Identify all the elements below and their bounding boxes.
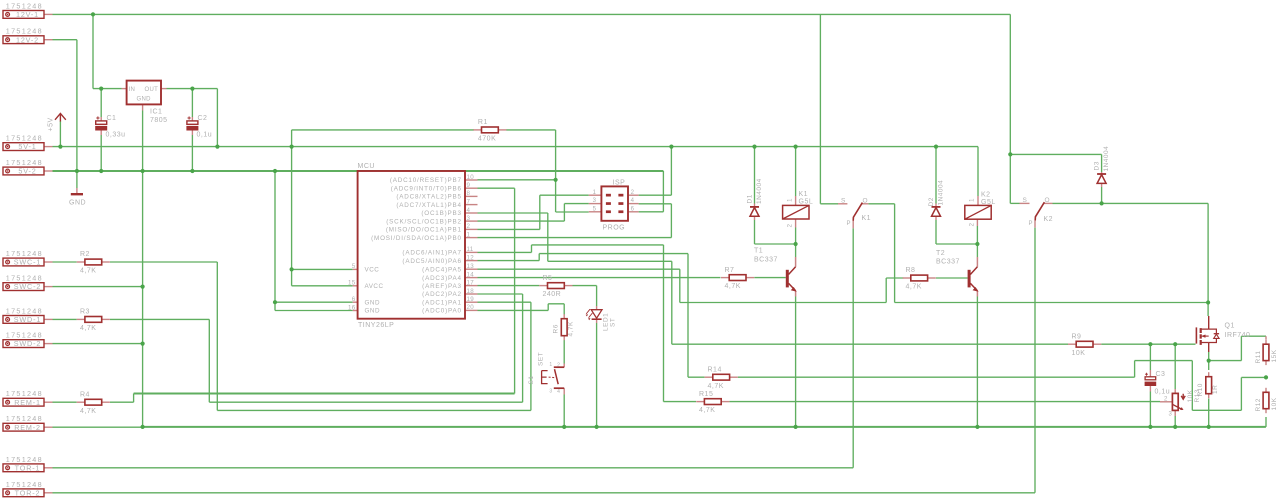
MCU pin 7 stub	[465, 204, 478, 206]
wire R6 to switch S1	[563, 340, 565, 364]
svg-text:9: 9	[467, 182, 471, 189]
svg-text:5V-2: 5V-2	[18, 167, 36, 176]
ISP pin 3 stub	[589, 203, 602, 205]
svg-text:(MOSI/DI/SDA/OC1A)PB0: (MOSI/DI/SDA/OC1A)PB0	[371, 235, 462, 242]
svg-text:SWD-2: SWD-2	[14, 339, 41, 348]
svg-text:4: 4	[557, 389, 560, 395]
wire GND pin6 branch	[275, 301, 353, 303]
wire MCU PA3 to R5	[478, 285, 540, 287]
resistor R3 4,7K	[85, 317, 102, 323]
svg-text:IC1: IC1	[150, 109, 162, 116]
relay coil K1 G5L	[783, 205, 809, 219]
junction ground riser on REM-2	[141, 425, 145, 429]
diode D1 1N4004	[750, 206, 759, 208]
svg-text:R9: R9	[1072, 333, 1082, 340]
wire R5 to LED1 anode	[573, 285, 597, 287]
svg-text:4,7K: 4,7K	[80, 268, 96, 275]
svg-text:GND: GND	[365, 299, 381, 306]
wire 12V right drop to K2/D3	[1009, 14, 1011, 203]
wire MCU PA4 to R7 (T1 base)	[478, 277, 721, 279]
connector X7 pin SWD-1	[3, 316, 44, 324]
junction IC1 GND on ground line	[141, 169, 145, 173]
relay coil K2 G5L	[965, 205, 991, 219]
MCU U1 TINY26LP body	[358, 171, 465, 319]
relay contact K1 S-O-P	[853, 203, 862, 221]
svg-text:(ADC10/RESET)PB7: (ADC10/RESET)PB7	[390, 177, 462, 184]
capacitor C3 0,1u	[1145, 377, 1156, 380]
svg-text:R7: R7	[725, 267, 735, 274]
junction LED1 on ground rail	[595, 425, 599, 429]
connector X4 pin 5V-2	[3, 167, 44, 175]
wire Q1 source node	[1208, 352, 1210, 370]
wire C1 bottom to ground line	[100, 135, 102, 171]
svg-text:MCU: MCU	[358, 163, 375, 170]
push button S1 SET	[554, 366, 564, 368]
junction GND pins riser on ground line	[273, 169, 277, 173]
svg-text:(ADC0)PA0: (ADC0)PA0	[422, 308, 462, 315]
svg-text:(ADC5/AIN0)PA6: (ADC5/AIN0)PA6	[402, 258, 461, 265]
svg-text:R5: R5	[543, 275, 553, 282]
svg-text:(ADC8/XTAL2)PB5: (ADC8/XTAL2)PB5	[396, 194, 461, 201]
wire REM-2 ground rail	[53, 426, 143, 428]
svg-text:P: P	[847, 221, 852, 227]
svg-text:OUT: OUT	[145, 87, 159, 93]
MCU pin 2 stub	[465, 228, 478, 230]
svg-text:C3: C3	[1156, 371, 1166, 378]
svg-text:2: 2	[1164, 397, 1168, 403]
junction ground riser on SWC-2	[141, 285, 145, 289]
diode D3 1N4004	[1097, 173, 1106, 175]
wire K2-O to load node	[1053, 202, 1209, 204]
wire K2-P to TOR-2	[1034, 228, 1036, 493]
svg-text:7: 7	[467, 198, 471, 205]
capacitor C2 0,1u	[187, 121, 198, 124]
svg-text:SWD-1: SWD-1	[14, 315, 41, 324]
svg-text:6: 6	[352, 296, 356, 303]
svg-text:16: 16	[348, 304, 356, 311]
wire LED1 cathode to ground rail	[596, 323, 598, 427]
wire MCU PA0 to R6	[478, 309, 549, 311]
wire net +5V horizontal rail	[53, 146, 979, 148]
MCU pin 8 stub	[465, 195, 478, 197]
svg-text:0,1u: 0,1u	[197, 132, 213, 139]
relay contact K2 S-O-P	[1035, 202, 1044, 220]
svg-text:14: 14	[467, 271, 475, 278]
junction C1 on ground line	[99, 169, 103, 173]
svg-text:BC337: BC337	[936, 259, 960, 266]
svg-text:3: 3	[467, 215, 471, 222]
svg-text:(ADC7/XTAL1)PB4: (ADC7/XTAL1)PB4	[396, 202, 461, 209]
ISP pin 4 stub	[628, 203, 639, 205]
svg-text:2: 2	[970, 222, 976, 226]
svg-text:T1: T1	[754, 248, 763, 255]
svg-text:O: O	[1045, 197, 1051, 204]
junction S1 on ground rail	[562, 425, 566, 429]
wire AVCC branch	[292, 285, 353, 287]
resistor R4 4,7K	[85, 399, 102, 405]
wire R2 to MCU PA1	[110, 261, 217, 263]
svg-text:5: 5	[352, 263, 356, 270]
svg-text:6: 6	[631, 206, 635, 212]
svg-text:20: 20	[467, 304, 475, 311]
wire GND pin16 branch	[275, 310, 353, 312]
svg-text:R1: R1	[478, 119, 488, 126]
svg-text:(ADC1)PA1: (ADC1)PA1	[422, 299, 462, 306]
svg-text:2: 2	[467, 223, 471, 230]
svg-text:(AREF)PA3: (AREF)PA3	[422, 283, 462, 290]
wire reset node to MCU PB7 pin10	[478, 179, 556, 181]
MCU pin 18 stub	[465, 293, 478, 295]
svg-text:GND: GND	[137, 97, 152, 103]
svg-text:K2: K2	[1044, 216, 1054, 223]
wire VCC branch	[292, 268, 353, 270]
wire K2 coil to T2 collector	[976, 226, 978, 244]
svg-text:IRF740: IRF740	[1225, 332, 1251, 339]
transistor T1 BC337	[786, 270, 789, 288]
MCU pin 13 stub	[465, 268, 478, 270]
wire R15 to trimmer R13	[729, 401, 1160, 403]
svg-text:ST: ST	[610, 318, 617, 327]
MCU pin 9 stub	[465, 187, 478, 189]
svg-text:4,7K: 4,7K	[80, 408, 96, 415]
wire 12V drop to relay contact K1-S	[819, 14, 821, 203]
svg-text:SET: SET	[538, 352, 545, 366]
svg-text:D1: D1	[747, 194, 754, 203]
svg-text:P: P	[1029, 221, 1034, 227]
connector X9 pin REM-1	[3, 398, 44, 406]
svg-text:TINY26LP: TINY26LP	[358, 322, 394, 329]
wire GND symbol drop	[76, 171, 78, 188]
junction GND pin6 branch	[273, 300, 277, 304]
svg-text:3: 3	[549, 388, 552, 394]
wire D3 anode to load net	[1101, 187, 1103, 203]
svg-text:240R: 240R	[543, 291, 562, 298]
svg-text:R15: R15	[699, 391, 713, 398]
wire C2 top	[191, 89, 193, 117]
wire R3 to MCU PA2	[110, 318, 209, 320]
wire R14 to divider midpoint	[738, 376, 1135, 378]
connector X8 pin SWD-2	[3, 340, 44, 348]
svg-text:2: 2	[788, 223, 794, 227]
wire R11 top stub riser	[1265, 336, 1267, 339]
wire REM-1 to R4	[53, 401, 77, 403]
MCU left pin 5 VCC stub	[353, 268, 358, 270]
junction D1/K1/T1 node	[794, 242, 798, 246]
wire 5V to MCU VCC	[291, 147, 293, 286]
wire gate net to R13 top	[1174, 344, 1176, 389]
svg-text:S: S	[841, 197, 846, 204]
resistor R10 1R	[1206, 377, 1212, 394]
svg-text:5V-1: 5V-1	[18, 142, 36, 151]
resistor R2 4,7K	[85, 259, 102, 265]
svg-text:4,7K: 4,7K	[568, 321, 575, 337]
wire 5V rail to D2 cathode	[935, 147, 937, 204]
svg-text:R3: R3	[80, 309, 90, 316]
svg-text:1: 1	[467, 231, 471, 238]
wire gate net to C3	[1149, 344, 1151, 370]
svg-text:AVCC: AVCC	[365, 283, 384, 290]
+5V supply arrow	[55, 113, 66, 119]
svg-text:SWC-1: SWC-1	[14, 258, 41, 267]
wire ISP pin3 to MCU PB2	[564, 203, 588, 205]
connector X3 pin 5V-1	[3, 143, 44, 151]
svg-text:REM-1: REM-1	[14, 398, 41, 407]
junction T2 emitter on ground rail	[975, 425, 979, 429]
ISP pin 6 stub	[628, 211, 639, 213]
junction VCC branch	[290, 267, 294, 271]
svg-text:4,7K: 4,7K	[725, 283, 741, 290]
wire bottom ground rail	[143, 426, 1266, 428]
MCU pin 17 stub	[465, 285, 478, 287]
svg-text:R2: R2	[80, 251, 90, 258]
svg-text:R13: R13	[1194, 389, 1201, 402]
svg-text:13: 13	[467, 263, 475, 270]
MCU pin 11 stub	[465, 251, 478, 253]
wire ISP pin1 to MCU PB1	[540, 194, 589, 196]
wire S1 to ground rail	[563, 395, 565, 427]
ISP contacts row 3	[606, 210, 611, 213]
svg-text:1N4004: 1N4004	[938, 180, 945, 206]
wire MCU PB3 to R9 (gate drive)	[478, 212, 548, 214]
svg-text:O: O	[863, 197, 869, 204]
wire C2 bottom to ground line	[191, 135, 193, 171]
svg-text:VCC: VCC	[365, 267, 380, 274]
junction K1 coil on 5V rail	[794, 145, 798, 149]
svg-text:R14: R14	[708, 366, 722, 373]
svg-text:R12: R12	[1255, 398, 1262, 411]
svg-text:(OC1B)PB3: (OC1B)PB3	[421, 210, 461, 217]
MCU pin 3 stub	[465, 220, 478, 222]
junction 12V-1 rail / IC1 drop	[91, 12, 95, 16]
svg-text:R4: R4	[80, 391, 90, 398]
junction VCC riser on 5V rail	[290, 145, 294, 149]
svg-text:S: S	[1023, 197, 1028, 204]
junction R13 tap on gate net	[1173, 342, 1177, 346]
svg-text:ISP: ISP	[613, 180, 626, 187]
wire IC1 GND down	[142, 111, 144, 427]
MCU left pin 6 GND stub	[353, 301, 358, 303]
wire ISP pin2 to 5V rail	[639, 194, 672, 196]
svg-text:(MISO/DO/OC1A)PB1: (MISO/DO/OC1A)PB1	[386, 227, 462, 234]
voltage regulator IC1 7805 body	[127, 81, 161, 105]
svg-text:R8: R8	[906, 267, 916, 274]
wire ground to MCU GND pins	[274, 171, 276, 311]
svg-text:1: 1	[788, 198, 794, 202]
svg-text:4,7K: 4,7K	[708, 383, 724, 390]
wire +5V arrow to rail	[59, 121, 61, 147]
transistor T2 BC337	[968, 270, 971, 288]
wire T2 emitter to ground rail	[976, 297, 978, 427]
svg-text:4,7K: 4,7K	[80, 325, 96, 332]
wire SWC-2 to ground riser	[53, 286, 143, 288]
svg-text:470K: 470K	[478, 136, 496, 143]
connector X12 pin TOR-2	[3, 489, 44, 497]
svg-text:(ADC3)PA4: (ADC3)PA4	[422, 275, 462, 282]
svg-text:4,7K: 4,7K	[699, 407, 715, 414]
wire ISP pin6 to ground line	[639, 211, 664, 213]
wire K1-O to load node	[868, 203, 894, 205]
resistor R1 470K	[482, 127, 499, 133]
wire SWD-2 to ground riser	[53, 343, 143, 345]
svg-text:17: 17	[467, 279, 475, 286]
wire net 12V-2 to ground rail	[53, 39, 77, 41]
svg-text:GND: GND	[365, 308, 381, 315]
svg-text:12V-2: 12V-2	[16, 35, 39, 44]
svg-text:18: 18	[467, 288, 475, 295]
svg-text:15K: 15K	[1271, 349, 1278, 362]
resistor R9 10K	[1076, 341, 1093, 347]
svg-text:4: 4	[631, 198, 635, 204]
junction C1 on IN wire	[99, 87, 103, 91]
resistor R8 4,7K	[911, 275, 928, 281]
svg-text:R6: R6	[553, 324, 560, 333]
wire ISP pin4 to MCU PB0	[639, 203, 672, 205]
wire R7 to T1 base	[754, 277, 786, 279]
connector X11 pin TOR-1	[3, 464, 44, 472]
junction 12V-2 on ground line	[75, 169, 79, 173]
ISP pin 2 stub	[628, 194, 639, 196]
wire R4 to MCU PB6	[110, 401, 134, 403]
svg-text:3: 3	[1169, 412, 1173, 418]
ISP contacts row 2	[606, 202, 611, 205]
svg-text:(ADC6/AIN1)PA7: (ADC6/AIN1)PA7	[402, 250, 461, 257]
MCU left pin 15 AVCC stub	[353, 285, 358, 287]
svg-text:19: 19	[467, 296, 475, 303]
svg-text:T2: T2	[936, 250, 945, 257]
wire R12 bottom to ground rail	[1265, 417, 1267, 427]
wire MCU PA5 to R8 (T2 base)	[478, 268, 680, 270]
wire IC1 OUT to 5V rail	[167, 88, 218, 90]
wire R9 to Q1 gate	[1101, 343, 1195, 345]
svg-text:3: 3	[593, 198, 597, 204]
junction K1-O / K2-O load node	[1206, 300, 1210, 304]
MCU pin 1 stub	[465, 237, 478, 239]
svg-text:G5L: G5L	[981, 199, 996, 206]
MCU pin 4 stub	[465, 212, 478, 214]
svg-text:4,7K: 4,7K	[906, 284, 922, 291]
connector X6 pin SWC-2	[3, 283, 44, 291]
svg-text:(SCK/SCL/OC1B)PB2: (SCK/SCL/OC1B)PB2	[386, 218, 462, 225]
wire 5V rail to K1 coil	[795, 147, 797, 196]
svg-text:1: 1	[549, 362, 552, 368]
svg-text:0,33u: 0,33u	[106, 132, 126, 139]
junction ISP pin2 on 5V rail	[669, 145, 673, 149]
wire MCU PA7 to R15	[478, 251, 532, 253]
svg-text:C1: C1	[107, 115, 117, 122]
svg-text:G5L: G5L	[799, 199, 814, 206]
svg-text:PROG: PROG	[603, 225, 626, 232]
connector X2 pin 12V-2	[3, 36, 44, 44]
wire R10 to ground rail	[1208, 399, 1210, 427]
svg-text:REM-2: REM-2	[14, 423, 41, 432]
svg-text:1N4004: 1N4004	[756, 178, 763, 204]
svg-text:K2: K2	[981, 192, 991, 199]
junction C3 on ground rail	[1148, 425, 1152, 429]
svg-text:12V-1: 12V-1	[16, 10, 39, 19]
junction C2 on OUT wire	[190, 87, 194, 91]
svg-text:10K: 10K	[1187, 389, 1194, 402]
wire net 12V-1 top rail	[53, 13, 1011, 15]
svg-text:LED1: LED1	[603, 313, 610, 331]
svg-text:K1: K1	[862, 215, 872, 222]
svg-text:C2: C2	[198, 115, 208, 122]
svg-text:12: 12	[467, 254, 475, 261]
wire 5V rail to D1 cathode	[754, 147, 756, 204]
resistor R5 240R	[548, 283, 565, 289]
svg-text:BC337: BC337	[754, 257, 778, 264]
junction +5V on rail	[58, 145, 62, 149]
wire 5V rail up to R1	[291, 130, 293, 147]
MCU pin 14 stub	[465, 277, 478, 279]
svg-text:(ADC2)PA2: (ADC2)PA2	[422, 291, 462, 298]
connector X5 pin SWC-1	[3, 258, 44, 266]
MCU pin 12 stub	[465, 260, 478, 262]
svg-text:IN: IN	[129, 87, 136, 93]
MCU pin 19 stub	[465, 301, 478, 303]
svg-text:1: 1	[593, 190, 597, 196]
wire 12V to D3 cathode	[1010, 153, 1101, 155]
junction C3 tap on gate net	[1148, 342, 1152, 346]
capacitor C1 0,33u	[96, 121, 107, 124]
wire K1 coil to T1 collector	[795, 228, 797, 245]
wire ground line 5V-2 row	[53, 170, 664, 172]
junction D3 on load net	[1100, 201, 1104, 205]
resistor R15 4,7K	[704, 399, 721, 405]
svg-text:SWC-2: SWC-2	[14, 282, 41, 291]
svg-text:1: 1	[970, 198, 976, 202]
svg-text:R11: R11	[1255, 351, 1262, 364]
wire T1 emitter to ground rail	[795, 297, 797, 427]
junction D2/K2/T2 node	[975, 242, 979, 246]
junction 12V / D3 branch	[1008, 152, 1012, 156]
wire K1-P to TOR-1	[852, 228, 854, 467]
svg-text:10K: 10K	[1072, 350, 1086, 357]
wire T1 collector	[795, 244, 797, 257]
junction ground riser on SWD-2	[141, 342, 145, 346]
svg-text:TOR-2: TOR-2	[15, 488, 41, 497]
junction D2 on 5V rail	[934, 145, 938, 149]
svg-text:(ADC4)PA5: (ADC4)PA5	[422, 266, 462, 273]
svg-text:+5V: +5V	[48, 117, 55, 131]
wire D1 anode down	[754, 220, 756, 244]
svg-text:1N4004: 1N4004	[1103, 146, 1110, 172]
junction R11/R12 midpoint	[1264, 375, 1268, 379]
junction Q1 source node	[1207, 359, 1211, 363]
svg-text:(ADC9/INT0/T0)PB6: (ADC9/INT0/T0)PB6	[391, 185, 462, 192]
junction T1 emitter on ground rail	[794, 425, 798, 429]
diode D2 1N4004	[932, 206, 941, 208]
svg-text:8: 8	[467, 190, 471, 197]
svg-text:2: 2	[631, 190, 635, 196]
wire reset to ISP pin5	[556, 211, 589, 213]
wire R1 to reset node	[506, 129, 555, 131]
svg-text:1R: 1R	[1212, 385, 1219, 394]
junction OUT drop on 5V rail	[215, 145, 219, 149]
wire R13 bottom to ground rail	[1174, 416, 1176, 427]
connector X10 pin REM-2	[3, 423, 44, 431]
svg-text:GND: GND	[69, 200, 86, 207]
junction R13 on ground rail	[1173, 425, 1177, 429]
svg-text:D2: D2	[928, 197, 935, 206]
wire C3 to ground rail	[1149, 392, 1151, 427]
svg-text:Q1: Q1	[1225, 323, 1235, 330]
connector ISP PROG body	[601, 186, 628, 220]
svg-text:2: 2	[557, 362, 560, 368]
wire D2 anode down	[935, 220, 937, 244]
svg-text:7805: 7805	[150, 117, 168, 124]
wire C1 top	[100, 89, 102, 117]
junction R10 on ground rail	[1207, 425, 1211, 429]
